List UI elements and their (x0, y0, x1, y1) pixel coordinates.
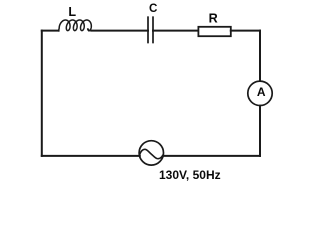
wire bottom-right (corner to source) (163, 155, 260, 157)
wire source to bottom-left corner (42, 155, 140, 157)
wire top-left (corner to inductor) (42, 30, 59, 32)
wire resistor to top-right corner (231, 30, 260, 32)
wire left vertical (41, 31, 43, 156)
ammeter U1 circle (248, 81, 272, 105)
svg-text:R: R (209, 12, 218, 26)
ac source V1 circle (139, 141, 163, 165)
svg-text:L: L (68, 5, 76, 19)
capacitor C plate right (152, 17, 154, 42)
wire right vertical upper (259, 31, 261, 81)
wire inductor to capacitor (91, 30, 148, 32)
wire right vertical lower (259, 106, 261, 156)
ac source sine wave (140, 149, 164, 158)
wire capacitor to resistor (153, 30, 198, 32)
svg-text:C: C (149, 2, 158, 15)
svg-text:A: A (257, 85, 266, 99)
capacitor C plate left (147, 17, 149, 42)
inductor L (59, 20, 92, 31)
svg-text:130V, 50Hz: 130V, 50Hz (159, 168, 221, 182)
resistor R body (198, 27, 230, 36)
